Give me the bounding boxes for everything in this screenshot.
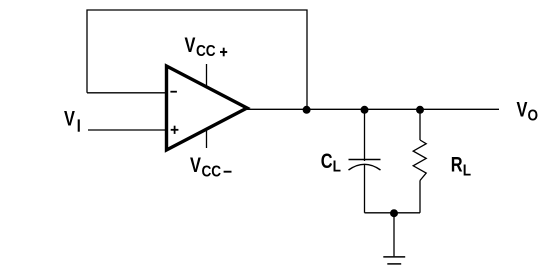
svg-text:V: V xyxy=(190,153,201,176)
svg-text:O: O xyxy=(528,108,539,125)
svg-text:CC: CC xyxy=(196,43,216,60)
svg-text:L: L xyxy=(333,158,341,175)
svg-text:V: V xyxy=(185,33,196,56)
svg-text:C: C xyxy=(321,149,333,172)
svg-text:CC: CC xyxy=(202,164,222,181)
svg-text:R: R xyxy=(451,153,463,176)
svg-text:V: V xyxy=(64,107,75,130)
svg-text:L: L xyxy=(463,163,471,180)
svg-text:V: V xyxy=(517,98,528,121)
